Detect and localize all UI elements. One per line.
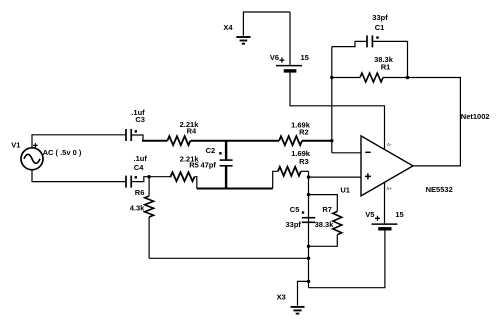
op-amp minus symbol [365,151,370,153]
source V1 [21,148,43,170]
plus sign V6 [279,58,284,63]
wire R5 right lead [195,177,197,189]
resistor R2 [279,136,302,145]
svg-text:X4: X4 [223,23,233,32]
junction C1/R1 left [330,76,333,79]
wire R7 top loop [309,195,338,212]
svg-text:R5: R5 [189,160,199,169]
svg-text:R7: R7 [322,205,332,214]
wire R4 to R2 (bold) [190,140,279,142]
svg-text:C5: C5 [290,205,300,214]
junction R7 bottom [307,245,310,248]
capacitor C1 [367,35,372,47]
polarity dot C1 [376,36,378,38]
junction R7 top [307,193,310,196]
plus sign V5 [375,216,380,221]
wire V6 bottom to op-amp V- pin [290,73,385,150]
svg-text:V6: V6 [270,53,279,62]
wire bottom rail R6 to node B [149,257,308,259]
junction R2/node [330,139,333,142]
svg-text:NE5532: NE5532 [426,185,453,194]
svg-text:V1: V1 [11,140,20,149]
resistor R6 leads [148,177,150,259]
polarity dot C2 [219,152,221,154]
svg-text:C4: C4 [134,163,144,172]
capacitor C5 plates [302,218,316,223]
resistor R5 [171,172,195,181]
junction X3 node [307,280,310,283]
svg-text:C2: C2 [206,146,216,155]
svg-text:R3: R3 [299,157,309,166]
resistor R7 [333,211,342,234]
svg-text:V5: V5 [365,210,374,219]
wire to X3 ground [298,281,309,305]
resistor R1 [360,73,383,82]
svg-text:Λ+: Λ+ [386,186,392,191]
svg-text:AC ( .5v 0 ): AC ( .5v 0 ) [43,148,82,157]
svg-text:15: 15 [395,210,403,219]
svg-text:15: 15 [301,53,309,62]
wire inverting input [332,152,361,154]
wire X4 to V6 top rail [243,12,290,36]
wire C3 to R4 (bold) [142,140,167,142]
svg-text:R4: R4 [187,126,197,135]
wire V5 top to op-amp V+ pin [384,183,386,225]
ground X4 [236,37,250,44]
wire C1 right [372,41,407,77]
polarity dot C4 [135,176,137,178]
junction + input [307,175,310,178]
junction bottom rail [307,257,310,260]
resistor R3 [278,167,301,176]
wire R2 to node (bold) [302,140,332,142]
wire non-inverting input [309,176,362,178]
svg-text:47pf: 47pf [200,160,216,169]
svg-text:33pf: 33pf [372,13,388,22]
wire C1 left [332,41,367,46]
wire C4 right jog [131,177,171,182]
svg-text:X3: X3 [277,293,286,302]
capacitor C2 plates [220,160,233,166]
op-amp U1 [361,136,413,196]
junction C4/R6/R5 [147,175,150,178]
svg-text:4.3k: 4.3k [130,204,145,213]
svg-text:.1uf: .1uf [134,154,148,163]
node B vertical [308,171,310,287]
op-amp plus symbol [365,173,371,179]
wire R7 bottom loop [309,235,338,247]
capacitor C3 [126,129,131,141]
svg-text:C3: C3 [135,115,145,124]
wire R3 left lead [273,171,278,188]
wire R1 right lead [383,77,408,79]
svg-text:33pf: 33pf [285,220,301,229]
capacitor C2 vertical leads (bold) [225,141,227,189]
svg-text:R6: R6 [135,188,145,197]
wire V1 bottom [32,170,126,182]
ground X3 [291,307,305,314]
wire V5 bottom [309,229,385,288]
svg-text:Λ-: Λ- [387,142,392,147]
wire R3 right lead [301,170,309,172]
junction C1/R1 right [406,76,409,79]
node A vertical (feedback to inverting input) [331,47,333,153]
resistor R4 [167,136,190,145]
svg-text:38.3k: 38.3k [315,220,335,229]
wire mid rail (bold) [197,188,273,190]
svg-text:R1: R1 [381,63,391,72]
svg-text:Net1002: Net1002 [461,112,490,121]
svg-text:R2: R2 [299,127,309,136]
resistor R6 [145,196,154,217]
polarity dot C3 [135,130,137,132]
wire C3 right jog [131,135,143,141]
wire V1 top [32,135,126,148]
battery V6 [276,66,302,71]
wire R1 left lead [332,77,360,79]
wire V6 top [289,12,291,65]
svg-text:C1: C1 [375,23,385,32]
svg-text:U1: U1 [340,186,350,195]
plus sign V1 [33,143,38,148]
wire output net [408,78,461,166]
polarity dot C5 [302,211,304,213]
capacitor C4 [126,176,131,188]
battery V5 [372,224,398,229]
